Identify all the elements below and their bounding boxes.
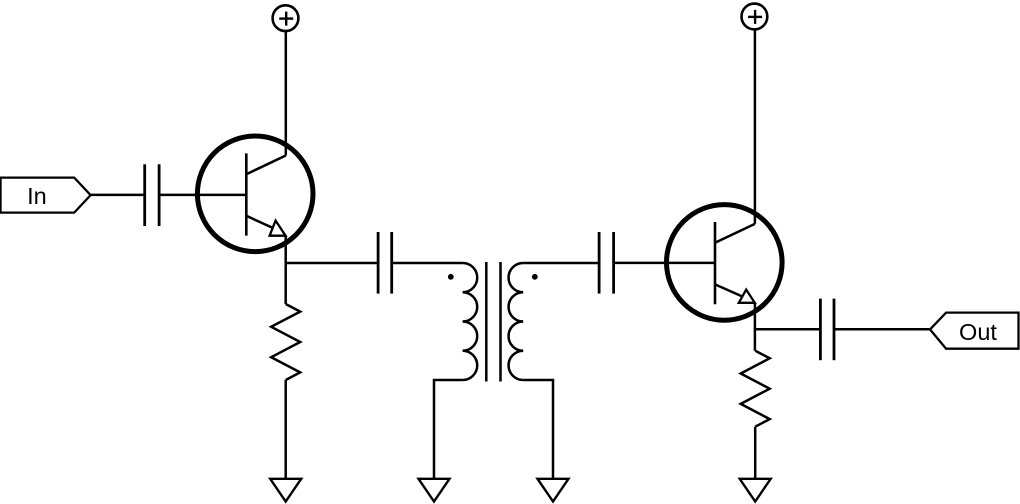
- capacitor C4: [820, 299, 834, 361]
- power +V right: [742, 4, 768, 30]
- wire node to C2: [286, 262, 378, 265]
- polarity dot primary: [448, 274, 454, 280]
- transformer T1 primary winding: [463, 263, 478, 380]
- ground (T1 secondary): [538, 479, 569, 502]
- wire +V to Q1 collector: [285, 31, 288, 155]
- ground (T1 primary): [419, 479, 450, 502]
- transformer T1 secondary winding: [509, 263, 524, 380]
- wire T1 secondary to C3: [523, 262, 599, 265]
- wire T1 secondary to ground: [523, 380, 553, 479]
- transistor Q1: [197, 136, 313, 252]
- wire R2 to ground: [754, 427, 757, 479]
- polarity dot secondary: [532, 274, 538, 280]
- wire +V to Q2 collector: [754, 30, 757, 224]
- wire C1 to Q1 base: [159, 194, 246, 197]
- power +V left: [273, 5, 299, 31]
- wire C3 to Q2 base: [614, 262, 715, 265]
- resistor R2: [741, 351, 770, 427]
- wire node to C4: [755, 328, 821, 331]
- capacitor C1: [145, 164, 159, 226]
- port Out: [930, 313, 1019, 349]
- resistor R1: [271, 304, 300, 380]
- ground (R1): [270, 479, 301, 502]
- wire R1 to ground: [284, 380, 287, 479]
- wire In to C1: [91, 194, 145, 197]
- wire C4 to Out: [834, 328, 930, 331]
- svg-text:Out: Out: [959, 319, 997, 345]
- capacitor C3: [599, 232, 614, 294]
- wire C2 to T1 primary: [392, 262, 463, 265]
- transformer T1 core: [486, 262, 500, 382]
- capacitor C2: [378, 232, 392, 294]
- wire Q1 emitter to node: [284, 236, 287, 304]
- port In: [1, 178, 91, 213]
- svg-text:In: In: [27, 183, 47, 209]
- ground (R2): [740, 479, 771, 502]
- wire T1 primary to ground: [434, 380, 463, 479]
- transistor Q2: [667, 205, 783, 321]
- wire Q2 emitter to node: [754, 303, 757, 351]
